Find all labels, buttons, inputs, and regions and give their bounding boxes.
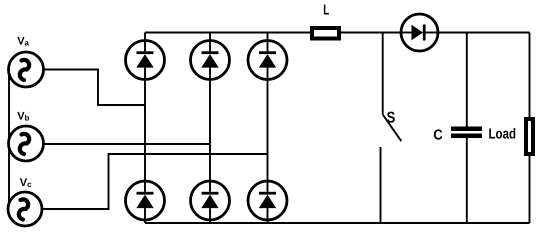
svg-text:Va: Va <box>17 35 29 47</box>
svg-text:Vc: Vc <box>20 177 32 189</box>
wire bridge leg 3 <box>267 33 269 224</box>
wire bridge leg 2 <box>209 33 211 224</box>
thyristor D1 top row <box>126 41 165 80</box>
svg-text:S: S <box>387 109 396 126</box>
diode D7 boost <box>401 14 438 51</box>
source Va <box>9 52 44 87</box>
wire capacitor top leg <box>466 33 468 127</box>
wire bottom bus <box>145 222 530 224</box>
wire neutral left <box>8 70 10 210</box>
svg-text:Load: Load <box>489 127 517 143</box>
resistor Load <box>526 119 533 154</box>
wire load bottom leg <box>529 156 531 223</box>
wire switch top <box>382 33 384 115</box>
source Vc <box>8 192 42 226</box>
wire top bus <box>145 32 530 34</box>
thyristor D2 bottom row <box>248 181 287 220</box>
wire load top leg <box>529 33 531 118</box>
svg-text:L: L <box>323 2 329 18</box>
wire bridge leg 1 <box>144 33 146 224</box>
source Vb <box>9 126 44 161</box>
inductor L <box>312 28 339 39</box>
wire Vb to leg 2 <box>44 143 211 145</box>
thyristor D4 bottom row <box>126 181 165 220</box>
svg-text:C: C <box>433 127 443 143</box>
thyristor D3 top row <box>191 41 230 80</box>
thyristor D6 bottom row <box>191 181 230 220</box>
svg-text:Vb: Vb <box>17 110 29 122</box>
thyristor D5 top row <box>248 41 287 80</box>
capacitor C plates <box>451 127 482 132</box>
switch S blade <box>383 114 402 141</box>
wire capacitor bottom leg <box>466 138 468 223</box>
wire switch bottom <box>380 147 382 223</box>
wire Va to leg 1 <box>44 70 146 106</box>
wire Vc to leg 3 <box>42 154 268 209</box>
